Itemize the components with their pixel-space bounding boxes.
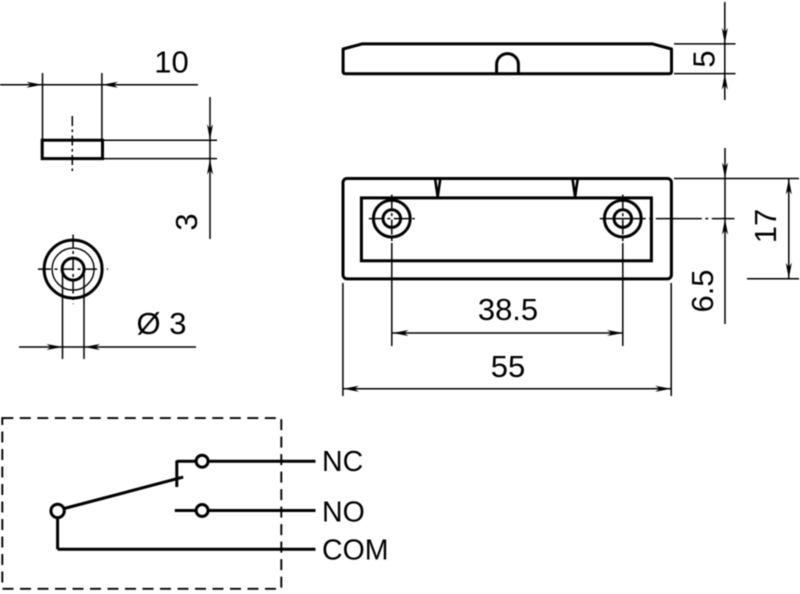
extension line from right hole down (dim 38.5) — [622, 243, 624, 346]
dimension line 17 — [788, 179, 790, 279]
magnet end view outline — [42, 140, 102, 158]
outer housing rect — [343, 179, 671, 279]
arrow left (dim 10) — [27, 82, 43, 88]
dimension line 38.5 — [393, 332, 624, 334]
svg-text:NC: NC — [322, 446, 363, 478]
svg-text:5: 5 — [687, 50, 722, 67]
notch V right — [573, 180, 578, 197]
switch arm — [64, 477, 183, 508]
horizontal centerline — [38, 268, 108, 270]
right hole inner circle — [614, 210, 632, 228]
extension line right (dim d3) — [83, 274, 85, 359]
side view outline with chamfers — [343, 44, 671, 74]
wire COM horizontal — [58, 548, 316, 551]
pivot contact circle COM — [51, 504, 64, 517]
svg-text:55: 55 — [491, 349, 525, 384]
arrow right (dim 55) — [655, 386, 671, 392]
extension line right (dim 55) — [670, 283, 672, 396]
svg-text:3: 3 — [169, 213, 204, 230]
arrow left (dim 55) — [343, 386, 359, 392]
dimension line d3 — [19, 346, 196, 348]
wire NO left stub — [175, 509, 196, 512]
dimension line 55 — [343, 388, 671, 390]
svg-text:Ø 3: Ø 3 — [137, 306, 187, 341]
NO contact circle — [196, 505, 208, 517]
svg-text:NO: NO — [322, 496, 365, 528]
arrow right (dim d3) — [84, 344, 100, 350]
arrow top (dim 3) — [207, 124, 213, 140]
inner recess rect — [361, 198, 651, 261]
arrow bottom (dim 17) — [786, 263, 792, 279]
arrow bottom (dim 3) — [207, 159, 213, 175]
svg-text:6.5: 6.5 — [685, 269, 720, 312]
left hole outer circle — [373, 200, 410, 237]
right hole horizontal centerline extended right — [600, 218, 735, 220]
notch V left — [435, 180, 440, 197]
dimension line 6.5 — [724, 148, 726, 324]
extension line top shared (dim 17) — [674, 178, 799, 180]
extension line from left hole down (dim 38.5) — [391, 243, 393, 346]
NC contact stub — [175, 461, 178, 488]
arrow left (dim 38.5) — [393, 330, 409, 336]
inner circle (hole dia 3) — [62, 258, 84, 280]
wire COM vertical — [56, 518, 59, 550]
right hole vertical centerline — [622, 195, 624, 243]
svg-text:17: 17 — [748, 209, 783, 243]
wire NC left — [177, 460, 196, 463]
svg-text:COM: COM — [322, 535, 389, 567]
middle circle — [52, 248, 94, 290]
extension line left (dim 10) — [42, 73, 44, 139]
extension line left (dim 55) — [342, 283, 344, 396]
sensor arch notch — [497, 54, 519, 74]
extension line left (dim d3) — [62, 274, 64, 359]
extension line bottom (dim 17) — [747, 278, 799, 280]
arrow bottom (dim 6.5) — [722, 219, 728, 235]
extension line bottom (dim 3) — [104, 158, 218, 160]
dimension line 3 — [209, 97, 211, 239]
extension line right (dim 10) — [101, 73, 103, 139]
left hole horizontal centerline — [369, 218, 415, 220]
svg-text:10: 10 — [154, 45, 188, 80]
dimension line 5 — [724, 2, 726, 100]
left hole inner circle — [383, 210, 401, 228]
arrow bottom (dim 5) — [722, 74, 728, 90]
right hole outer circle — [604, 200, 641, 237]
outer circle — [44, 240, 102, 298]
arrow top (dim 17) — [786, 179, 792, 195]
arrow top (dim 5) — [722, 28, 728, 44]
arrow right (dim 10) — [102, 82, 118, 88]
extension line bottom (dim 5) — [674, 73, 736, 75]
wire NO right — [208, 509, 315, 512]
dimension line 10 — [0, 84, 198, 86]
centerline of end view — [71, 116, 73, 171]
vertical centerline — [72, 235, 74, 305]
arrow right (dim 38.5) — [607, 330, 623, 336]
dashed housing border — [2, 418, 281, 589]
arrow top (dim 6.5) — [722, 163, 728, 179]
wire NC right — [208, 460, 315, 463]
arrow left (dim d3) — [47, 344, 63, 350]
extension line top (dim 5) — [674, 43, 736, 45]
svg-text:38.5: 38.5 — [478, 292, 538, 327]
left hole vertical centerline — [391, 195, 393, 243]
NC contact circle — [196, 455, 208, 467]
extension line top (dim 3) — [104, 139, 218, 141]
